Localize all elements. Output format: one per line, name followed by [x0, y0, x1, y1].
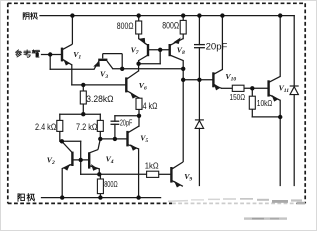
wire bases down: [159, 50, 161, 64]
wire right edge top: [293, 16, 295, 86]
wire V4 emitter down: [98, 169, 100, 174]
diode D2: [290, 85, 299, 87]
wire V2 loop right: [80, 141, 82, 174]
transistor V1: [62, 16, 72, 65]
wire 4k to V5 collector: [138, 109, 140, 126]
wire diode1 to bottom: [198, 128, 200, 185]
wire V7V8 bases: [148, 49, 170, 51]
svg-text:3.28kΩ: 3.28kΩ: [86, 94, 113, 105]
resistor 800-3: [97, 179, 103, 194]
wire V2 loop top: [62, 140, 81, 142]
wire V2 emitter down: [61, 169, 63, 198]
transistor V7: [139, 39, 148, 61]
wire V1 emitter down: [71, 65, 73, 85]
wire 3.28k leads: [82, 85, 84, 91]
wire cap1 bottom lead: [198, 48, 200, 80]
wire 800-2 leads: [182, 16, 184, 21]
resistor 800-2: [180, 20, 186, 34]
wire V8col to V10 base: [183, 79, 213, 81]
wire V10 emitter to 150: [222, 87, 233, 89]
svg-text:10kΩ: 10kΩ: [257, 98, 273, 108]
text cathode (CJK drawn): [23, 12, 37, 19]
svg-text:20pF: 20pF: [206, 41, 228, 52]
wire 800-1 leads: [138, 16, 140, 21]
transistor reference labels: [47, 45, 289, 182]
diode D1: [195, 86, 299, 128]
wire 10k to V11 emitter: [252, 116, 280, 118]
wire ref node down: [49, 55, 51, 70]
transistor V3 (pnp): [94, 54, 122, 70]
transistor V4: [89, 139, 100, 170]
wire 10k bottom lead: [251, 109, 253, 117]
text anode (CJK drawn): [18, 193, 35, 201]
wire cap2 to 4k node: [115, 115, 139, 117]
wire 150 to V11 base: [244, 87, 269, 89]
svg-text:20pF: 20pF: [120, 117, 132, 127]
transistor V2: [62, 142, 73, 170]
node anode rail (bottom): [42, 197, 161, 199]
wire bases to V7 collector: [139, 63, 161, 65]
wire cap2 leads: [114, 116, 116, 121]
wire V3 collector bus: [113, 68, 183, 70]
watermark smudges: [168, 198, 305, 220]
wire 2.4k leads: [59, 114, 61, 120]
svg-text:1kΩ: 1kΩ: [145, 161, 159, 171]
resistor 7.2k: [97, 120, 103, 131]
wire V11 collector up: [279, 16, 281, 77]
transistor V9: [171, 162, 183, 187]
wire 10k top lead: [251, 88, 253, 96]
svg-text:7.2 kΩ: 7.2 kΩ: [76, 122, 97, 133]
svg-text:4 kΩ: 4 kΩ: [143, 101, 158, 112]
wire ref to V1 base: [42, 54, 63, 56]
wire emitters bus to 1k: [81, 173, 147, 175]
wire ref to V3 emitter: [50, 68, 94, 70]
wire 800-3 leads: [99, 174, 101, 179]
wire V8 collector vertical: [182, 61, 184, 162]
node cathode rail (top): [40, 15, 294, 17]
wire right edge bottom: [293, 95, 295, 186]
transistor V11: [269, 76, 281, 100]
wire V1 emitter to V6 base: [72, 84, 127, 86]
value labels: [35, 21, 272, 189]
wire V7 collector vertical: [138, 61, 140, 71]
svg-text:2.4 kΩ: 2.4 kΩ: [35, 122, 56, 133]
wire V5 emitter down: [138, 149, 140, 198]
resistor 10k: [249, 96, 255, 109]
wire V11 emitter down: [279, 100, 281, 185]
wire diode1 line: [198, 80, 200, 120]
dashed border frame: [8, 3, 305, 203]
resistor 150 (horizontal): [232, 85, 244, 91]
svg-text:150Ω: 150Ω: [230, 92, 246, 102]
svg-text:800Ω: 800Ω: [117, 21, 134, 32]
transistor V5: [128, 126, 139, 150]
wire cap1 top lead: [198, 16, 200, 45]
svg-text:800Ω: 800Ω: [162, 21, 179, 32]
resistor 4k: [136, 98, 142, 109]
wire 7.2k leads: [99, 114, 101, 120]
transistor V6: [126, 71, 139, 98]
wire V10 collector up: [221, 16, 223, 70]
wire 1k to V9 base: [159, 173, 172, 175]
resistor 800-1: [57, 20, 256, 193]
resistor 1k (horizontal): [147, 171, 159, 177]
capacitor C1 20pF: [111, 45, 205, 125]
transistor V8: [170, 39, 184, 61]
wire V5 base: [100, 138, 127, 140]
wire 4k top lead: [138, 97, 140, 99]
resistor 3.28k: [80, 91, 86, 104]
text reference (CJK drawn): [16, 50, 40, 57]
wire divider top: [60, 113, 101, 115]
transistor V10: [213, 69, 222, 89]
capacitor C2 20pF: [111, 120, 120, 122]
svg-text:800Ω: 800Ω: [104, 179, 117, 189]
resistor 2.4k: [57, 120, 63, 131]
wire V2V4 bases: [72, 159, 89, 161]
